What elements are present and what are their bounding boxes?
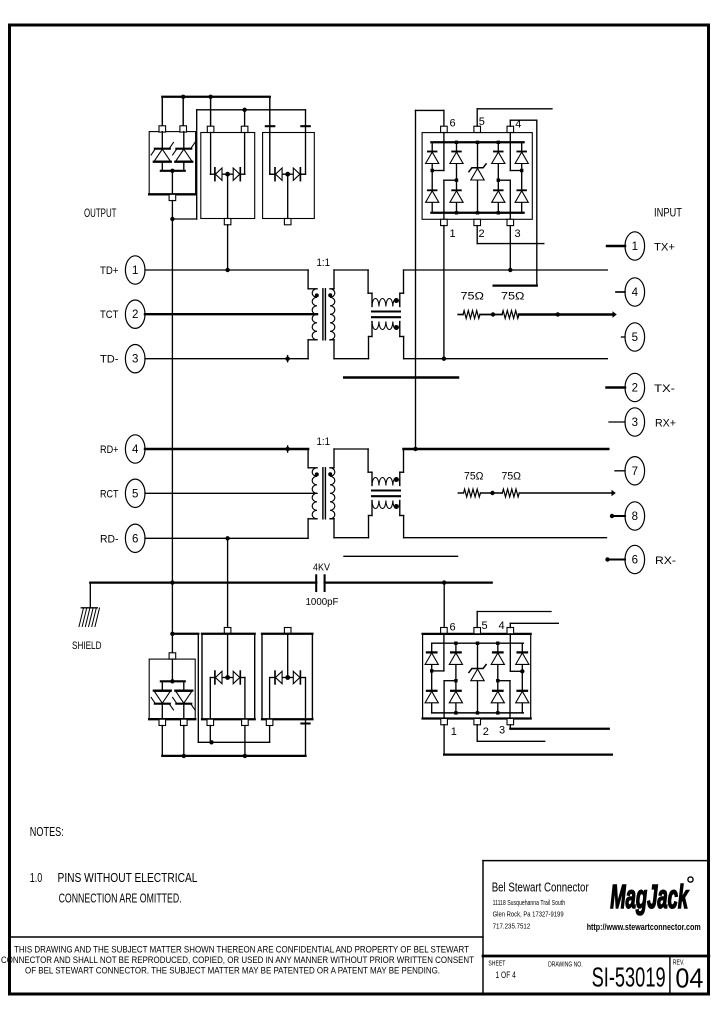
title block frame [482, 861, 484, 994]
wire pin2 [607, 386, 626, 388]
TVS pair D2 [210, 173, 215, 175]
protector box D4 (dual thyristor surge arrestor) [169, 653, 176, 659]
resistor R3 [464, 489, 481, 497]
svg-text:PINS WITHOUT ELECTRICAL: PINS WITHOUT ELECTRICAL [58, 870, 198, 885]
wire TCT center tap [145, 313, 317, 315]
wire TX+ line [404, 269, 608, 271]
svg-text:TD+: TD+ [100, 265, 119, 277]
wire diode column [431, 142, 433, 213]
wires D2 internal leads [210, 133, 212, 175]
diode lower lower-array [493, 690, 503, 692]
wire U2 pin1 stub [443, 725, 445, 755]
wire between R3 R4 [481, 492, 503, 494]
svg-text:75Ω: 75Ω [464, 470, 484, 482]
transformer core [322, 468, 324, 519]
pin 4 circle [625, 278, 645, 306]
svg-text:5: 5 [132, 488, 138, 500]
svg-text:11118 Susquehanna Trail South: 11118 Susquehanna Trail South [493, 898, 565, 907]
diode lower [428, 189, 437, 191]
polarity dot primary [315, 472, 319, 476]
svg-text:TX-: TX- [654, 383, 675, 395]
thyristor symbol D4a [161, 681, 163, 690]
wire long vertical to RD+ [415, 110, 417, 449]
wire RX+ line [404, 448, 609, 450]
MagJack registered mark [688, 877, 693, 882]
svg-text:Bel Stewart Connector: Bel Stewart Connector [492, 880, 589, 895]
svg-text:7: 7 [632, 466, 638, 478]
svg-text:1:1: 1:1 [317, 436, 331, 448]
svg-text:04: 04 [675, 963, 703, 994]
shield ground symbol [81, 607, 97, 609]
transformer secondary winding [330, 289, 335, 340]
protector box D2 (bidirectional TVS) [201, 133, 255, 219]
resistor R2 [502, 311, 519, 319]
thyristor symbol D4b [183, 681, 185, 690]
polarity dot primary [315, 293, 319, 297]
svg-text:TD-: TD- [100, 354, 119, 366]
wire U2 pin3 stub [509, 725, 511, 729]
svg-text:RD-: RD- [100, 533, 119, 545]
pin TCT circle 2 [125, 300, 145, 328]
arrow end resistor wire [613, 311, 617, 318]
svg-text:6: 6 [450, 622, 456, 634]
pin RD- circle 6 [125, 524, 145, 552]
zener column lower [477, 643, 479, 713]
diode upper lower-array [518, 651, 528, 653]
node stub on TD- [287, 356, 289, 362]
wire RX- line [404, 537, 607, 539]
pin bars U2 top [266, 125, 275, 127]
diode array U2 box [441, 628, 448, 634]
pin 6 circle [625, 545, 645, 573]
wire diode column lower [431, 643, 433, 713]
svg-text:1:1: 1:1 [317, 257, 331, 269]
svg-text:1 OF 4: 1 OF 4 [496, 970, 516, 981]
wire TD+ [145, 269, 308, 271]
wire T lead top-right [330, 467, 334, 469]
protector box D1 (dual thyristor surge arrestor) [149, 132, 195, 195]
wire choke hook top-left [367, 270, 369, 293]
choke winding 2 [372, 501, 400, 509]
wire lower rail2 [162, 755, 305, 757]
pin square D2 bottom [224, 219, 231, 225]
svg-text:5: 5 [482, 620, 488, 632]
common bar D4 [171, 659, 173, 681]
pin squares U1 top [441, 126, 448, 132]
wire U1 pin5 stub right [476, 109, 478, 126]
svg-text:1: 1 [132, 265, 138, 277]
svg-text:MagJack: MagJack [610, 878, 689, 915]
pin squares U2 bottom [441, 719, 448, 725]
wire U1 pin6 internal [443, 133, 445, 171]
common bar D1 [161, 170, 185, 172]
U2 top bus [432, 642, 524, 644]
wire diode column [456, 142, 458, 213]
svg-text:NOTES:: NOTES: [30, 824, 64, 839]
wire shield rail [90, 581, 316, 583]
diode upper [428, 151, 437, 153]
wire pin7 [615, 470, 625, 472]
protector box D6 (bidirectional TVS) [284, 628, 291, 634]
title block divider vertical rev [669, 956, 671, 994]
transformer primary winding [312, 289, 317, 340]
svg-text:4: 4 [499, 620, 505, 632]
svg-text:4KV: 4KV [313, 562, 330, 574]
svg-text:6: 6 [450, 118, 456, 130]
svg-text:RX-: RX- [655, 555, 676, 567]
wire diode column lower [455, 643, 457, 713]
wire shield lead [89, 583, 91, 608]
wire D5 stems to rails [209, 726, 211, 743]
disclaimer box top line [11, 936, 483, 938]
transformer core [322, 289, 324, 340]
thyristor symbol D1a [161, 132, 163, 149]
wire U2 pin5 stub [476, 612, 478, 628]
pin squares D2 top [207, 126, 214, 132]
svg-text:CONNECTOR AND SHALL NOT BE REP: CONNECTOR AND SHALL NOT BE REPRODUCED, C… [1, 955, 474, 965]
choke core [372, 310, 400, 312]
wire pin6 [608, 558, 626, 560]
polarity dot choke w2 [394, 325, 398, 329]
pin squares D5 bottom [207, 719, 214, 725]
wire R2 to termination [519, 313, 613, 315]
TVS pair D3 [270, 173, 275, 175]
svg-text:717.235.7512: 717.235.7512 [493, 922, 531, 931]
wire diode column [497, 142, 499, 213]
diode lower lower-array [427, 690, 437, 692]
diode array U1 box [422, 133, 532, 220]
svg-text:CONNECTION ARE OMITTED.: CONNECTION ARE OMITTED. [59, 891, 182, 906]
diode upper lower-array [427, 651, 437, 653]
wire pin8 [612, 515, 625, 517]
zener diode center [469, 164, 486, 172]
pin squares U1 bottom [441, 219, 448, 225]
svg-text:2: 2 [632, 383, 638, 395]
svg-text:RD+: RD+ [100, 444, 119, 456]
pin 1 circle [625, 232, 645, 260]
wire D1 stem down to shield rail [171, 201, 173, 583]
pin 3 circle [625, 408, 645, 436]
wire U1 pin1 internal [443, 180, 445, 219]
wire pin3 [609, 421, 625, 423]
wire T lead bottom-left [308, 339, 317, 341]
wire T lead bottom-right [330, 518, 334, 520]
svg-text:SI-53019: SI-53019 [592, 962, 666, 993]
zener diode center lower [469, 665, 486, 673]
wire RCT center tap [145, 492, 317, 494]
pin square D1 bottom [169, 194, 176, 200]
svg-text:4: 4 [132, 444, 139, 456]
zener column [477, 142, 479, 213]
wire choke hook bottom-left [371, 322, 373, 337]
pin TD+ circle 1 [125, 256, 145, 284]
diode upper lower-array [493, 651, 503, 653]
wire choke hook top-left [367, 449, 369, 472]
diode lower [452, 189, 461, 191]
wire U2 pin6 internal [443, 634, 445, 671]
wire U1 pin3 to TX+ [509, 226, 511, 270]
wire choke hook top-right [403, 270, 405, 293]
diode lower lower-array [451, 690, 461, 692]
resistor R4 [502, 489, 519, 497]
wire between R1 R2 [480, 314, 502, 316]
wire TX- line [404, 358, 608, 360]
polarity dot choke w2 [394, 504, 398, 508]
svg-text:2: 2 [479, 228, 485, 240]
isolation barrier line bottom [344, 555, 458, 557]
svg-text:5: 5 [479, 116, 485, 128]
wire T lead top-left [307, 449, 309, 468]
svg-text:75Ω: 75Ω [501, 291, 525, 303]
svg-text:8: 8 [632, 511, 638, 523]
wire TD- [145, 358, 308, 360]
transformer secondary winding [330, 468, 335, 519]
wire U1 pin3 internal [509, 180, 511, 219]
wire U1 pin4 stub right [509, 120, 511, 126]
wire resistor lead left lower [458, 492, 463, 494]
svg-text:1000pF: 1000pF [306, 596, 339, 608]
svg-text:THIS DRAWING AND THE SUBJECT M: THIS DRAWING AND THE SUBJECT MATTER SHOW… [14, 945, 469, 955]
wire T lead bottom-left [308, 518, 317, 520]
wire diode column [521, 142, 523, 213]
pin RCT circle 5 [125, 479, 145, 507]
pin squares D1 top [159, 126, 166, 132]
wire choke hook bottom-right [399, 501, 401, 516]
wire choke hook bottom-left [371, 501, 373, 516]
wire U2 pin1 internal [443, 681, 445, 719]
svg-text:RCT: RCT [100, 488, 119, 500]
wire D2 stem to TD+ [227, 225, 229, 270]
U1 bottom bus [431, 212, 523, 214]
choke winding 2 [372, 322, 400, 330]
choke winding 1 [372, 478, 400, 486]
pin square D3 bottom (N/C) [284, 219, 291, 225]
wire choke hook top-right [403, 449, 405, 472]
wire bus1 top common [162, 96, 269, 98]
wire pin5 [622, 336, 626, 338]
polarity dot choke w1 [394, 478, 398, 482]
diode upper [517, 151, 526, 153]
diode upper [452, 151, 461, 153]
svg-text:OUTPUT: OUTPUT [84, 208, 117, 220]
TVS pair D5 [227, 634, 229, 675]
polarity dot secondary [328, 293, 332, 297]
wire RD- [145, 537, 308, 539]
diode lower lower-array [518, 690, 528, 692]
svg-text:2: 2 [132, 309, 138, 321]
svg-text:3: 3 [632, 417, 638, 429]
wire T lead top-left [307, 270, 309, 289]
pin 7 circle [625, 457, 645, 485]
U1 top bus [431, 141, 523, 143]
svg-text:SHIELD: SHIELD [72, 640, 102, 652]
polarity dot choke w1 [394, 299, 398, 303]
wire diode column lower [521, 643, 523, 713]
svg-text:3: 3 [499, 725, 505, 737]
diode lower [494, 189, 503, 191]
svg-text:TX+: TX+ [654, 242, 675, 254]
svg-text:3: 3 [515, 228, 521, 240]
junction dots bus2 [242, 108, 246, 112]
svg-text:Glen Rock, Pa 17327-9199: Glen Rock, Pa 17327-9199 [493, 910, 564, 919]
svg-text:75Ω: 75Ω [502, 470, 522, 482]
pin squares D4 bottom [159, 719, 166, 725]
pin 8 circle [625, 502, 645, 530]
transformer primary winding [312, 468, 317, 519]
svg-text:1: 1 [450, 228, 456, 240]
pin RD+ circle 4 [125, 435, 145, 463]
wire U1 pin4 internal [509, 133, 511, 171]
wire U2 pin4 internal [509, 634, 511, 671]
diode upper [494, 151, 503, 153]
svg-text:RX+: RX+ [655, 418, 676, 430]
wire RD+ [145, 448, 308, 450]
svg-text:1: 1 [632, 241, 638, 253]
polarity dot secondary [328, 472, 332, 476]
wire U1 pin1 to TX- [443, 226, 445, 359]
pin square D6 bottom-left [266, 719, 273, 725]
svg-text:75Ω: 75Ω [461, 291, 485, 303]
pin TD- circle 3 [125, 345, 145, 373]
diode upper lower-array [451, 651, 461, 653]
TVS pair D6 [287, 634, 289, 675]
wire resistor lead left [458, 314, 463, 316]
wire diode column lower [497, 643, 499, 713]
wire U2 pin3 internal [509, 681, 511, 719]
svg-text:1.0: 1.0 [30, 870, 43, 885]
choke core [372, 489, 400, 491]
svg-text:2: 2 [483, 726, 489, 738]
node stub on RD+ [287, 446, 289, 452]
pin squares U2 top [474, 628, 481, 634]
wire lower bus vertical and rail1 [197, 634, 199, 743]
wire choke hook bottom-right [399, 322, 401, 337]
svg-text:3: 3 [132, 354, 138, 366]
svg-text:6: 6 [132, 533, 138, 545]
wire U2 pin2 stub [476, 725, 478, 742]
wire pin4 [616, 291, 625, 293]
svg-text:4: 4 [632, 287, 639, 299]
junction dots bus1 [181, 95, 185, 99]
wire T lead top-right [330, 288, 334, 290]
choke winding 1 [372, 298, 400, 306]
svg-text:http://www.stewartconnector.co: http://www.stewartconnector.com [587, 922, 701, 932]
resistor R1 [463, 311, 480, 319]
arrow end lower resistor wire [612, 490, 616, 497]
pin 5 circle [625, 323, 645, 351]
diode lower [517, 189, 526, 191]
thyristor symbol D1b [183, 132, 185, 149]
wire lower bus thick from stem [171, 583, 173, 653]
protector box D3 (bidirectional TVS) [263, 133, 315, 219]
svg-text:6: 6 [632, 555, 638, 567]
svg-text:TCT: TCT [100, 309, 119, 321]
svg-text:SHEET: SHEET [488, 961, 506, 968]
svg-text:DRAWING NO.: DRAWING NO. [548, 962, 583, 969]
wire bus2 second common [197, 109, 306, 111]
capacitor C1 1000pF 4KV [315, 575, 317, 591]
wire U2 pin4 stub [509, 623, 511, 627]
wire pin1 [607, 245, 625, 247]
svg-text:INPUT: INPUT [654, 208, 682, 220]
svg-text:5: 5 [632, 332, 638, 344]
title block divider horizontal [483, 955, 709, 958]
pin bar D6 bottom-right [301, 722, 309, 724]
wire shield rail to U2 pin6 [443, 583, 445, 628]
wire U1 pin2 stub [476, 226, 478, 244]
wire R4 to termination [519, 492, 612, 494]
pin 2 circle [625, 373, 645, 401]
wire T lead bottom-right [330, 339, 334, 341]
U2 bottom bus [432, 712, 524, 714]
svg-text:1: 1 [451, 726, 457, 738]
protector box D5 (bidirectional TVS) [227, 539, 229, 628]
isolation barrier line top [344, 376, 458, 378]
svg-text:OF BEL STEWART CONNECTOR. THE: OF BEL STEWART CONNECTOR. THE SUBJECT MA… [25, 966, 440, 976]
wire D4b stem to rail2 [183, 726, 185, 756]
